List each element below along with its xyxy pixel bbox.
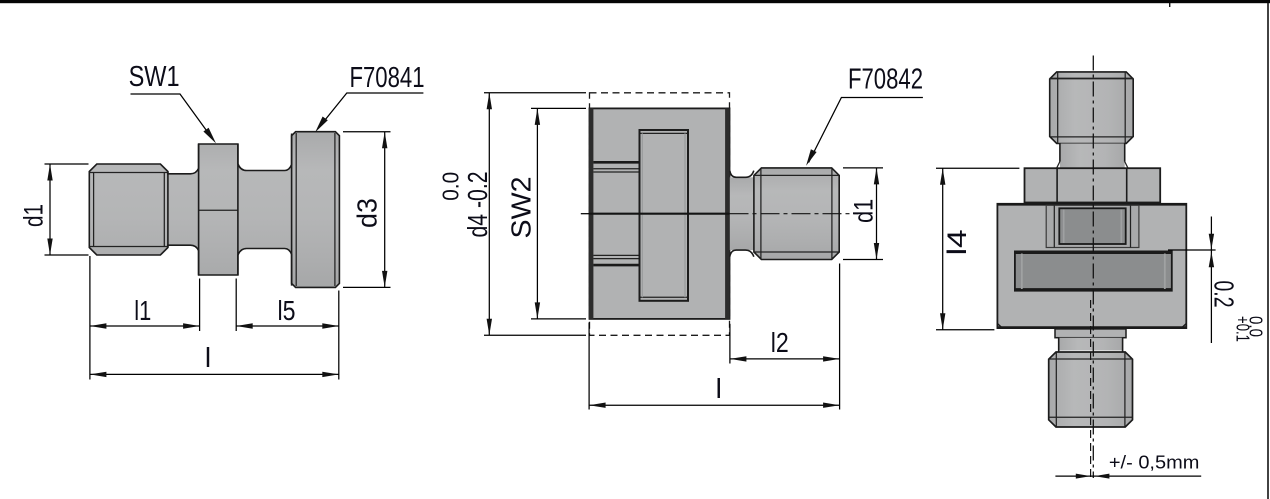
- thread block right face line (left view): [167, 172, 169, 248]
- svg-text:d1: d1: [19, 204, 49, 227]
- dimension d1 (middle) line: [876, 168, 878, 260]
- step line lower thin b: [593, 254, 639, 256]
- dimension l1 line: [90, 325, 200, 327]
- svg-text:0.0: 0.0: [438, 172, 464, 201]
- bottom collar (right view): [1055, 329, 1126, 338]
- dimension SW2 extension lines: [531, 107, 586, 109]
- svg-text:SW2: SW2: [506, 177, 537, 239]
- tenon inner line bottom: [641, 296, 688, 298]
- dimension d4 line: [488, 93, 490, 335]
- stud thread block (middle view): [754, 168, 839, 260]
- 0.2 extension line: [1168, 249, 1216, 251]
- thread block inner line top (left view): [89, 172, 168, 174]
- dimension d1 line: [49, 164, 51, 255]
- d3 flange left face line (left view): [291, 134, 293, 286]
- dimension l (middle) extension line left: [588, 323, 590, 410]
- dimension d3 extension lines: [343, 131, 391, 133]
- main block (right view): [997, 204, 1186, 328]
- page border right line: [1267, 3, 1269, 499]
- dimension SW2 line: [536, 108, 538, 319]
- stud inner line left: [760, 169, 762, 259]
- block top thick edge: [997, 203, 1186, 206]
- tolerance +/- 0,5mm line: [1055, 475, 1201, 477]
- leader arrow F70842: [806, 149, 817, 166]
- stud neck cross-section dark rect: [1059, 208, 1125, 244]
- SW1 flange left face line (left view): [198, 144, 200, 275]
- leader arrow F70841: [315, 117, 328, 133]
- step line upper thick: [593, 161, 639, 164]
- dimension d1 (middle) extension lines: [843, 167, 883, 169]
- svg-text:+/- 0,5mm: +/- 0,5mm: [1109, 452, 1200, 473]
- svg-text:d4 -0.2: d4 -0.2: [462, 172, 493, 238]
- centerline offset dashed line (right view): [1090, 300, 1092, 478]
- svg-text:0.2: 0.2: [1209, 281, 1240, 308]
- d3 flange bar (right view): [1015, 251, 1172, 290]
- thread block inner line left (left view): [93, 173, 95, 247]
- dimension 0.2 line: [1210, 217, 1212, 344]
- block bottom corner chamfer right: [1181, 324, 1186, 329]
- stud inner line right: [831, 169, 833, 259]
- dimension l2 line: [730, 358, 840, 360]
- stud neck bottom contour with fillets: [730, 250, 754, 257]
- dashed max outline rectangle: [590, 93, 730, 335]
- step line upper thin a: [593, 168, 639, 170]
- bottom neck (right view): [1059, 338, 1123, 351]
- block body (middle view): [590, 108, 730, 319]
- tenon inner shading line left: [641, 133, 643, 297]
- svg-text:F70841: F70841: [350, 62, 425, 94]
- step line lower thick: [593, 264, 639, 267]
- block bottom thick edge: [997, 326, 1186, 329]
- dimension d4 extension lines: [484, 92, 586, 94]
- svg-text:d1: d1: [849, 199, 879, 223]
- SW1 flange right face line (left view): [237, 144, 239, 275]
- dimension d1 extension lines (left view): [45, 163, 89, 165]
- block bottom corner chamfer left: [997, 324, 1002, 329]
- thread block inner line right (left view): [163, 173, 165, 247]
- pull stud body silhouette (left view): [89, 132, 339, 288]
- svg-text:l: l: [716, 373, 722, 404]
- svg-text:F70842: F70842: [848, 64, 923, 96]
- dimension l4 extension lines: [936, 167, 1019, 169]
- tenon inner line top: [641, 132, 688, 134]
- block left dark edge band: [589, 108, 594, 319]
- tenon inner shading line right: [684, 133, 686, 297]
- centerline through block (middle view): [590, 213, 730, 215]
- stud neck top contour with fillets: [730, 171, 754, 178]
- SW1 flange (right view): [1025, 168, 1161, 202]
- step line lower thin a: [593, 258, 639, 260]
- svg-text:l: l: [205, 342, 211, 373]
- centerline vertical dash-dot (right view): [1092, 56, 1094, 479]
- SW1 flange hex edge line (left view): [199, 209, 238, 211]
- page border top bar: [0, 0, 1270, 3]
- dimension d3 line: [384, 132, 386, 288]
- slot wall line left: [1053, 205, 1055, 247]
- top thread block (right view): [1050, 72, 1134, 144]
- svg-text:0.0: 0.0: [1246, 316, 1266, 337]
- d3 flange inner line right (left view): [334, 133, 336, 286]
- block right dark edge band: [725, 108, 730, 319]
- top neck (right view): [1060, 144, 1125, 169]
- thread block inner line bottom (left view): [89, 246, 168, 248]
- stud inner line top: [754, 174, 839, 176]
- stud inner line bottom: [754, 251, 839, 253]
- dimension l4 line: [942, 168, 944, 330]
- page border tick: [1169, 3, 1170, 7]
- slot region light strip: [1046, 205, 1139, 247]
- svg-text:SW1: SW1: [129, 61, 180, 93]
- dimension l1 extension lines: [89, 256, 91, 380]
- leader arrow SW1: [203, 128, 216, 144]
- d3 flange inner line left (left view): [295, 133, 297, 286]
- stud neck fill (middle view): [730, 177, 755, 250]
- dimension l (middle) line: [589, 404, 840, 406]
- dimension l line (left view): [90, 373, 339, 375]
- svg-text:d3: d3: [352, 198, 383, 228]
- leader SW1: [131, 94, 213, 139]
- leader F70842: [809, 98, 923, 163]
- slot wall line right: [1130, 205, 1132, 247]
- dimension l5 extension lines: [235, 279, 237, 332]
- dimension l2 extension lines: [729, 324, 731, 364]
- tenon slot rectangle (middle view): [640, 130, 689, 301]
- leader F70841: [318, 93, 423, 128]
- centerline extension right dash-dot (over stud): [730, 213, 859, 215]
- svg-text:l1: l1: [134, 295, 151, 326]
- centerline extension left: [581, 213, 590, 215]
- svg-text:l5: l5: [278, 295, 296, 326]
- bottom thread block (right view): [1049, 352, 1133, 427]
- step line upper thin b: [593, 171, 639, 173]
- svg-text:l4: l4: [942, 229, 972, 255]
- svg-text:l2: l2: [771, 327, 789, 358]
- dimension l5 line: [236, 325, 339, 327]
